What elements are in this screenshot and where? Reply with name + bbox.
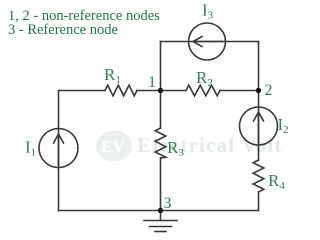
svg-text:R1: R1 [104,65,121,86]
node 1 junction dot [158,88,163,93]
wire mid rail between R1 and R2 [137,90,186,92]
wire node1 down to R3 [160,91,162,129]
svg-text:I1: I1 [25,138,36,159]
wire node2 vertical [258,42,260,91]
svg-text:I2: I2 [278,115,289,136]
svg-text:2: 2 [265,82,273,99]
node 2 junction dot [256,88,261,93]
current source I2 arrow [254,112,264,143]
watermark EV badge [96,131,132,162]
wire top rail [161,41,259,43]
svg-text:1: 1 [148,74,156,91]
svg-text:EV: EV [101,137,125,156]
wire mid rail right segment [220,90,259,92]
node 3 junction dot [158,208,163,213]
wire R4 to bottom rail [258,192,260,211]
wire left vertical [58,91,60,211]
wire mid rail left segment [59,90,106,92]
svg-text:I3: I3 [202,1,214,22]
current source I1 arrow [54,134,64,165]
svg-text:3 - Reference node: 3 - Reference node [8,22,118,38]
svg-text:3: 3 [164,195,172,212]
resistor R1 [105,85,137,96]
ground bar 2 [150,226,172,228]
current source I2 circle [240,107,278,145]
ground bar 3 [155,231,166,233]
current source I3 arrow [193,37,222,47]
wire node1 vertical up to top rail [160,42,162,91]
wire through I2 down to R4 [258,91,260,161]
svg-text:R4: R4 [268,171,285,192]
ground bar 1 [144,220,177,222]
svg-text:R2: R2 [196,68,213,89]
resistor R4 [253,160,264,192]
current source I1 circle [39,129,78,168]
ground stub [160,211,162,221]
current source I3 circle [189,23,226,60]
wire R3 to node3 [160,158,162,210]
wire bottom rail [59,210,259,212]
resistor R3 [155,128,166,158]
resistor R2 [186,85,220,96]
